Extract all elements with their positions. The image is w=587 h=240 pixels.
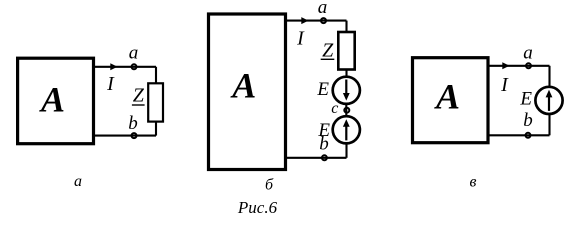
svg-text:Z: Z (133, 84, 145, 106)
arrow of E2 (up) (345, 126, 347, 140)
svg-text:A: A (230, 65, 256, 105)
terminal a3 (526, 63, 531, 68)
arrow of E3 (up) (548, 97, 550, 111)
svg-text:b: b (128, 113, 138, 134)
wire bottom: corner to box (94, 135, 157, 137)
wire top: box to corner (488, 65, 550, 67)
wire top: box to corner (94, 66, 157, 68)
wire bottom: corner to box (286, 157, 347, 159)
current arrow I2 (301, 17, 308, 24)
svg-text:E: E (316, 79, 329, 100)
svg-text:E: E (519, 89, 532, 110)
terminal a2 (321, 18, 326, 23)
wire down: corner to impedance (155, 67, 157, 84)
current arrow I1 (110, 63, 117, 70)
EMF source E3 circle (535, 87, 562, 114)
svg-text:A: A (434, 77, 460, 117)
network box A2 (209, 14, 286, 170)
wire top: box to corner (286, 20, 347, 22)
svg-text:I: I (106, 73, 115, 95)
wire: E1 to E2 through node c (345, 104, 347, 117)
wire bottom: corner to box (488, 134, 550, 136)
svg-text:Рис.6: Рис.6 (237, 198, 278, 217)
svg-text:а: а (74, 173, 82, 190)
underline of Z1 (132, 104, 145, 106)
wire down: impedance to corner (155, 122, 157, 136)
underline of Z2 (321, 58, 335, 60)
node c (344, 108, 349, 113)
svg-text:I: I (500, 74, 509, 96)
current arrow I3 (502, 62, 509, 69)
network box A1 (18, 58, 94, 144)
EMF source E1 circle (333, 77, 360, 104)
terminal b3 (526, 133, 531, 138)
arrow of E1 (down) (345, 80, 347, 95)
svg-text:a: a (523, 43, 533, 64)
terminal b2 (322, 155, 327, 160)
impedance Z1 (148, 83, 163, 121)
terminal b1 (132, 133, 137, 138)
wire: E3 to corner (548, 114, 550, 135)
svg-text:a: a (129, 43, 139, 64)
svg-text:б: б (265, 177, 274, 194)
svg-text:b: b (319, 134, 329, 155)
wire: impedance to source E1 (345, 70, 347, 78)
svg-text:A: A (39, 80, 65, 120)
network box A3 (413, 58, 489, 143)
svg-text:в: в (470, 173, 477, 190)
svg-text:a: a (318, 0, 328, 18)
svg-text:I: I (296, 28, 305, 50)
svg-text:b: b (523, 110, 533, 131)
wire down: corner to source E3 (548, 66, 550, 88)
svg-text:c: c (331, 100, 338, 117)
wire down: corner to impedance (345, 21, 347, 33)
terminal a1 (132, 64, 137, 69)
svg-text:Z: Z (322, 40, 334, 62)
wire: E2 to corner (345, 143, 347, 157)
EMF source E2 circle (333, 116, 360, 143)
impedance Z2 (338, 32, 354, 70)
